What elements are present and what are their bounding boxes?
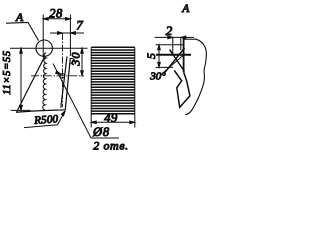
dimension 7 <box>50 32 84 35</box>
svg-text:Ø8: Ø8 <box>92 125 110 139</box>
detail face arrow mark <box>170 50 173 54</box>
detail tooth V profile <box>174 71 190 108</box>
detail tooth flank X diagonal 2 <box>170 50 185 72</box>
svg-text:R500: R500 <box>33 113 59 127</box>
svg-text:5: 5 <box>144 53 158 59</box>
svg-text:2: 2 <box>166 23 173 38</box>
holes axis vertical <box>62 33 64 107</box>
plate back edge outer <box>65 58 70 110</box>
serrated edge (zigzag teeth) <box>43 53 47 110</box>
detail dimension 2 <box>155 36 195 54</box>
svg-text:28: 28 <box>49 7 63 21</box>
top-right corner squiggle <box>71 59 75 65</box>
detail tooth flank X diagonal 1 <box>164 48 185 74</box>
detail dimension 5 <box>156 45 184 68</box>
detail tooth face line <box>156 54 191 56</box>
dimension 49 <box>91 114 135 128</box>
dimension 11x5=55 (vertical) <box>11 48 31 110</box>
detail angle leader <box>161 56 184 76</box>
svg-text:2 отв.: 2 отв. <box>93 139 128 152</box>
svg-text:A: A <box>181 3 190 15</box>
hole diameter leader <box>53 64 119 139</box>
plate bottom edge R500 arc <box>16 110 65 113</box>
svg-text:A: A <box>15 10 24 24</box>
plate back edge inner <box>61 57 67 108</box>
svg-text:49: 49 <box>104 111 118 125</box>
svg-text:11×5=55: 11×5=55 <box>2 50 13 95</box>
detail tooth vertical edge <box>183 39 185 73</box>
svg-text:7: 7 <box>76 18 83 33</box>
detail break outline <box>184 39 207 114</box>
hole centerline vertical (through circle) <box>42 15 44 58</box>
plate left edge <box>16 56 45 113</box>
R500 leader <box>24 111 65 128</box>
horizontal centerline through circle <box>10 47 88 49</box>
serrated face view (block of lines) <box>91 47 135 114</box>
detail indicator circle <box>36 40 52 56</box>
hole H2 circle <box>60 74 65 79</box>
block side edges <box>91 47 135 114</box>
dimension 28 <box>43 15 70 57</box>
view label A leader <box>6 22 39 40</box>
hole H2 horizontal centerline <box>31 75 84 77</box>
dimension 30 (vertical) <box>81 48 84 76</box>
